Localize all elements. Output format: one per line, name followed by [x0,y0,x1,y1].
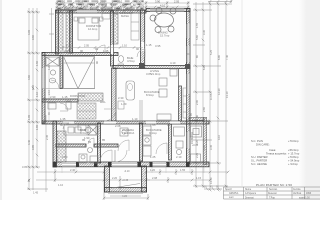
svg-text:3.60: 3.60 [31,34,35,40]
svg-text:14.50: 14.50 [209,177,213,184]
column block living [185,64,190,69]
right dimension line 1 [195,2,197,188]
svg-text:1.80: 1.80 [62,155,68,159]
svg-text:+ 54.9mp: + 54.9mp [288,158,300,162]
kitchen wall x180 [179,86,182,121]
svg-text:1.10: 1.10 [132,117,138,121]
svg-text:S.C. HECISE: S.C. HECISE [251,162,267,166]
left dimension line 2 [32,8,34,190]
bed 1 nightstands [74,17,78,21]
svg-text:4.05: 4.05 [27,29,31,35]
svg-text:3.45: 3.45 [209,144,213,150]
wall H1 between bedroom rows [42,53,118,56]
svg-text:1.25: 1.25 [150,155,156,159]
svg-text:-0.10: -0.10 [124,170,130,173]
svg-text:2.08: 2.08 [115,124,121,128]
svg-text:Specif.: Specif. [225,189,232,191]
closet right of wall x112 [113,14,118,44]
door arc hall big [104,109,116,121]
rotated dim texts on left lines [27,34,49,182]
wardrobe mid [78,93,103,101]
closet left of wall x143 [131,13,139,40]
rotated dim texts on right lines [195,22,229,184]
long corridor wall y122 [42,121,209,124]
svg-text:Terasa acoperita:: Terasa acoperita: [266,151,287,155]
svg-text:3.55: 3.55 [122,4,127,7]
svg-text:DORMITOR: DORMITOR [70,94,85,98]
svg-text:1.45: 1.45 [33,191,39,195]
door arc hall top [137,49,145,57]
bottom dimension line 1 [37,171,104,173]
window right wall 3 [187,74,190,94]
svg-text:1.35: 1.35 [60,117,66,121]
svg-text:MASA: MASA [121,14,129,18]
svg-text:2.90: 2.90 [195,99,199,105]
svg-text:90: 90 [167,123,171,127]
svg-text:1.55: 1.55 [195,22,199,28]
door gaps corridor wall [63,121,74,123]
svg-text:4.5mp: 4.5mp [127,59,135,63]
svg-text:4.10: 4.10 [160,3,166,7]
svg-text:Lucr.: Lucr. [229,196,234,199]
svg-text:TEHNICA: TEHNICA [122,131,134,135]
svg-text:3.95: 3.95 [155,44,161,48]
closet strip top-left [58,12,71,53]
window top bedroom1 [77,10,97,13]
interior wall x99 lower [98,123,101,163]
left outer dim line upper block [51,8,53,53]
kitchen counter bottom-left [64,125,96,135]
svg-text:DIN CARE:: DIN CARE: [256,143,270,147]
svg-text:3.90: 3.90 [155,0,161,4]
porch left wall [105,166,110,192]
column block corridor [139,63,144,68]
bottom dimension line right 2 [146,179,210,181]
svg-text:Semnat.: Semnat. [269,188,278,191]
svg-text:1.20: 1.20 [121,102,127,106]
protrusion fixtures [191,126,202,163]
svg-text:2.25: 2.25 [195,152,199,158]
svg-text:Cerinta: Cerinta [293,188,301,191]
svg-text:5.60: 5.60 [195,34,199,40]
svg-text:S.C. PLIN: S.C. PLIN [251,139,263,143]
corridor fixtures [48,101,71,111]
door arc bath [118,140,129,151]
svg-text:Casa:: Casa: [269,148,276,152]
svg-text:CAMARA: CAMARA [190,132,194,144]
door gap wall x112 [111,45,113,54]
living side counter [183,88,187,118]
svg-text:2.45: 2.45 [45,134,49,140]
kitchen nook divider lines [139,100,141,121]
top right corner dim marks [208,1,232,3]
svg-text:21.0mp: 21.0mp [151,72,161,76]
svg-text:1.15: 1.15 [196,176,202,180]
window top dining [150,9,184,12]
table texts [225,188,312,200]
interior wall x112 [111,11,114,66]
svg-text:+ 9.0mp: + 9.0mp [288,162,298,166]
svg-text:90: 90 [80,49,84,53]
bed 1 [78,17,99,40]
top dim smudge texts [57,0,145,9]
left page edge shading [0,0,2,200]
svg-text:2.10: 2.10 [176,155,182,159]
svg-text:1.10: 1.10 [122,45,127,48]
left exterior wall mid [42,53,45,124]
svg-text:12.4mp: 12.4mp [88,27,98,31]
top dimension ticks [57,1,188,12]
left inner dimension line [45,115,47,192]
svg-text:3.05: 3.05 [22,165,28,169]
svg-text:3.30: 3.30 [202,29,206,35]
bottom exterior wall [53,162,209,167]
svg-text:1.90: 1.90 [202,144,206,150]
svg-text:T.Pop: T.Pop [269,198,276,200]
right dimension line 3 [209,2,211,190]
interior wall x70 [70,11,73,53]
svg-text:2.05: 2.05 [174,0,180,4]
svg-text:2.15: 2.15 [64,49,70,53]
svg-text:7.40: 7.40 [225,54,229,60]
closet strip bottom-left [57,131,66,162]
kitchen cabinets column [143,126,151,156]
svg-text:1.65: 1.65 [150,123,156,127]
door arc bedroom1 [96,45,105,54]
window droplines bottom [62,167,204,173]
svg-text:9.1mp: 9.1mp [149,131,157,135]
dining round table [150,8,176,33]
svg-text:2.40: 2.40 [70,168,76,172]
svg-text:85: 85 [189,112,193,116]
svg-text:1.40: 1.40 [195,114,199,120]
bath C fixtures [174,127,185,155]
svg-text:Verificat: Verificat [293,192,302,195]
svg-text:4.10: 4.10 [170,61,176,65]
svg-text:4.60: 4.60 [27,74,31,80]
wall bath1/bed2 divider [60,56,62,89]
door arc kitchen [156,143,167,154]
dimension slash ticks [28,2,230,200]
window right wall 4 [187,132,190,148]
bottom right dim cluster [204,188,222,191]
extra top dim clutter [58,4,140,12]
right dimension line 5 [225,2,227,188]
left dimension ticks [27,12,48,189]
bottom wall window gap 1 [62,162,76,166]
svg-text:1.50: 1.50 [35,60,39,66]
svg-text:90: 90 [95,47,99,51]
boiler camera tehnica [120,128,128,136]
svg-text:+0.45: +0.45 [122,179,129,182]
svg-text:1.45: 1.45 [103,49,109,53]
svg-text:1993: 1993 [306,193,312,195]
left dimension line 1 [28,8,30,190]
svg-text:+56.3mp: +56.3mp [288,148,299,152]
svg-text:1.10: 1.10 [35,91,39,97]
living armchairs [157,69,177,120]
protrusion right wall [204,118,207,165]
porch right wall [142,166,147,192]
svg-text:2.30: 2.30 [118,96,124,100]
door arc corridor left [63,123,69,129]
svg-text:HOL: HOL [100,100,106,104]
svg-text:Desenat: Desenat [268,192,277,195]
window left wall [42,68,45,88]
svg-text:85: 85 [102,138,106,142]
svg-text:+70.8mp: +70.8mp [288,155,299,159]
bathtub [126,81,135,100]
svg-text:3.85: 3.85 [31,144,35,150]
svg-text:1.15: 1.15 [146,43,152,47]
interior wall y66 living top [113,66,190,69]
svg-text:6.80: 6.80 [217,54,221,60]
protrusion top wall [189,118,204,121]
wall jamb blocks bottom [54,162,190,167]
entry door gap [112,162,137,166]
svg-text:2.90: 2.90 [50,95,56,99]
svg-text:12.30: 12.30 [217,88,221,95]
svg-text:2.15: 2.15 [90,4,95,7]
bottom dimension line right 1 [146,171,228,173]
svg-text:1.95: 1.95 [27,114,31,120]
window right wall 1 [187,24,190,38]
porch bottom wall [105,188,147,193]
svg-text:95: 95 [82,138,86,142]
svg-text:2.20: 2.20 [112,176,118,180]
svg-text:4.40: 4.40 [27,139,31,145]
bathroom2 fixtures [78,125,98,163]
svg-text:3.85: 3.85 [146,72,152,76]
left outer window dim texts [47,64,51,115]
faint frame line right of plan [241,0,243,186]
top dimension line 3 [55,10,146,12]
interior dim line above H1 [56,45,143,49]
svg-text:80: 80 [60,123,64,127]
svg-text:S.L. PARTER: S.L. PARTER [251,158,267,162]
svg-text:90: 90 [136,47,140,51]
left exterior wall upper [56,10,59,54]
svg-text:+70.0mp: +70.0mp [288,139,299,143]
svg-text:GRUPUL: GRUPUL [229,193,239,195]
right dimension texts [195,34,229,145]
svg-text:+ 13.7mp: + 13.7mp [288,151,300,155]
interior wall x143 [141,10,145,68]
dressing closet corridor [77,103,96,119]
main table [224,186,320,188]
svg-text:S.U. PARTER: S.U. PARTER [251,155,268,159]
left dimension line 3 [36,8,38,168]
door gap wall x143 [141,42,144,51]
svg-text:13.10: 13.10 [225,91,229,98]
left dimension texts [22,29,39,194]
svg-text:1.65: 1.65 [35,124,39,130]
svg-text:2.08: 2.08 [152,176,158,180]
svg-text:1.20: 1.20 [150,168,156,172]
bottom dimension ticks [55,169,192,200]
bedroom2 bottom wall y100 [42,99,78,102]
interior wall x140 lower [140,123,143,161]
svg-text:1.55: 1.55 [180,168,186,172]
svg-text:1.10: 1.10 [58,183,64,187]
svg-text:11.55: 11.55 [209,93,213,100]
svg-text:5.25: 5.25 [209,49,213,55]
bottom-left exterior wall [53,121,57,167]
right dimension line 2 [202,2,204,188]
right dimension line 4 [217,2,219,190]
svg-text:Nume: Nume [245,189,252,191]
top exterior wall right part [146,9,190,12]
svg-text:4.10: 4.10 [217,134,221,140]
right dimension ticks [193,4,230,186]
right page edge shading [299,0,307,200]
svg-text:Desenat: Desenat [245,197,254,200]
svg-text:2.60: 2.60 [202,106,206,112]
window gaps (light) [42,9,190,167]
svg-text:1.10: 1.10 [111,4,116,7]
svg-text:PLAN PARTER SC 1:50: PLAN PARTER SC 1:50 [256,183,292,187]
top dimension texts [60,0,180,11]
window right wall 2 [187,46,190,62]
right exterior wall [187,9,191,165]
svg-text:90: 90 [95,60,99,64]
bottom dimension texts [58,168,202,198]
svg-text:4.6mp: 4.6mp [80,131,88,135]
wc small bath [118,56,124,69]
top exterior wall left part [56,10,146,13]
bottom dimension line 3 [104,197,148,199]
svg-text:15.7mp: 15.7mp [160,34,170,38]
wall x170 lower section [169,124,172,160]
bottom dimension line 2 [36,179,150,181]
svg-text:scara 1:50: scara 1:50 [299,197,310,200]
bathroom1 fixtures [46,57,59,88]
svg-text:1.15: 1.15 [62,95,68,99]
bed 2 with V fold [64,57,95,89]
top dimension line 1 [55,2,190,4]
svg-text:A.Popescu: A.Popescu [245,192,257,195]
top dimension line 2 [55,6,190,8]
svg-text:8.9mp: 8.9mp [146,93,154,97]
bathroom wall y145 [56,144,86,147]
bottom wall window gap 2 [152,162,166,166]
svg-text:2.05: 2.05 [84,45,89,48]
